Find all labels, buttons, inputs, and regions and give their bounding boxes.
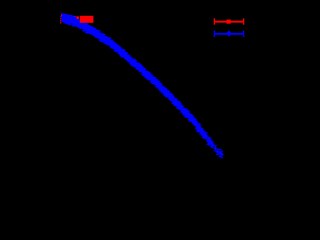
red series points (partly hidden)	[61, 14, 79, 20]
red blob cluster	[80, 16, 94, 23]
blue series band	[60, 13, 223, 158]
legend blue entry	[214, 30, 245, 37]
red series error caps column	[60, 16, 61, 24]
legend red entry	[214, 18, 245, 24]
chart canvas	[0, 0, 275, 193]
